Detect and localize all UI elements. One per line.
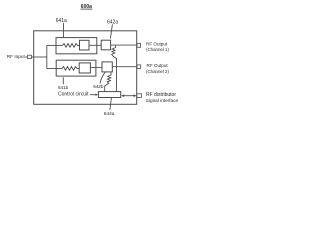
svg-text:RF Output: RF Output bbox=[147, 63, 169, 68]
svg-text:600a: 600a bbox=[81, 4, 92, 10]
svg-text:642b: 642b bbox=[93, 84, 104, 89]
svg-text:RF Output: RF Output bbox=[146, 41, 168, 46]
svg-text:641b: 641b bbox=[58, 85, 69, 90]
svg-text:641a: 641a bbox=[56, 18, 67, 24]
svg-text:(Channel 1): (Channel 1) bbox=[146, 47, 169, 52]
svg-text:Signal interface: Signal interface bbox=[146, 98, 179, 103]
svg-text:RF distributor: RF distributor bbox=[146, 92, 176, 98]
svg-text:Control circuit: Control circuit bbox=[58, 92, 89, 98]
svg-text:RF Input: RF Input bbox=[7, 54, 26, 59]
svg-text:(Channel 2): (Channel 2) bbox=[146, 69, 169, 74]
svg-text:644a: 644a bbox=[104, 111, 115, 117]
svg-text:642a: 642a bbox=[107, 20, 118, 26]
